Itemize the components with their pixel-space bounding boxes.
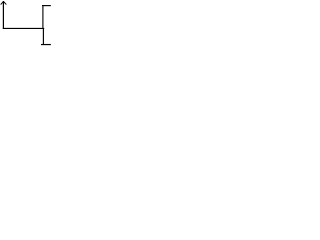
wire (arrow shaft, vertical) — [2, 1, 4, 29]
wire (long bottom horizontal) — [3, 27, 44, 29]
wire (lower vertical of right structure) — [42, 28, 44, 44]
wire (top horizontal of right structure) — [42, 5, 51, 7]
wire (bottom horizontal of right structure) — [41, 44, 51, 46]
wire (upper vertical of right structure) — [42, 6, 44, 29]
arrow A1 (up-pointing arrowhead) — [1, 2, 7, 5]
